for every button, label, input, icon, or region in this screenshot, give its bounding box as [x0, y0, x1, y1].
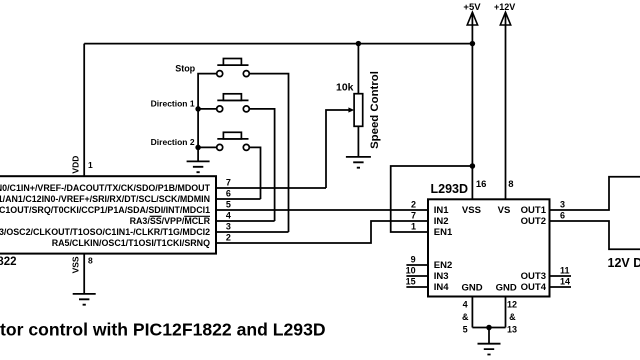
overline MCLR: [184, 215, 210, 217]
ground (L293D): [478, 344, 501, 355]
pushbutton Direction 2: [217, 132, 250, 150]
wire stop to PIC pin 3: [250, 74, 289, 232]
svg-text:8: 8: [88, 255, 93, 265]
svg-text:&: &: [509, 312, 516, 322]
svg-text:RA1/AN1/C12IN0-/VREF+/SRI/RX/D: RA1/AN1/C12IN0-/VREF+/SRI/RX/DT/SCL/SCK/…: [0, 194, 210, 204]
svg-text:4: 4: [463, 300, 468, 310]
node junction top rail / pot: [356, 41, 362, 47]
power symbol +12V arrow: [500, 12, 510, 25]
wire PIC pin 5 to L293D IN1: [217, 209, 428, 211]
svg-text:IN3: IN3: [434, 271, 449, 282]
svg-text:16: 16: [476, 179, 487, 190]
svg-text:RA4/AN3/OSC2/CLKOUT/T1OSO/C1IN: RA4/AN3/OSC2/CLKOUT/T1OSO/C1IN1-/CLKR/T1…: [0, 227, 210, 237]
wire L293D GND pins to ground: [472, 297, 505, 344]
ground (buttons): [187, 161, 210, 172]
svg-text:4: 4: [226, 211, 231, 221]
svg-text:Stop: Stop: [175, 64, 195, 74]
wire +5V vertical: [471, 12, 473, 199]
wire PIC pin 7 line: [217, 187, 326, 189]
svg-text:EN2: EN2: [434, 260, 452, 271]
node junction +5V / EN1: [470, 163, 476, 169]
wire EN1 to +5V: [391, 166, 473, 232]
svg-text:DC motor control with PIC12F18: DC motor control with PIC12F1822 and L29…: [0, 319, 326, 339]
wire PIC pin 6 line: [217, 198, 261, 200]
svg-text:RA5/CLKIN/OSC1/T1OSI/T1CKI/SRN: RA5/CLKIN/OSC1/T1OSI/T1CKI/SRNQ: [52, 238, 210, 248]
svg-text:7: 7: [226, 178, 231, 188]
node junction buttons direction1: [195, 106, 201, 112]
potentiometer R1 10k body: [354, 94, 363, 127]
svg-text:RA3/SS/VPP/MCLR: RA3/SS/VPP/MCLR: [130, 216, 211, 226]
ic U1 PIC12F1822 box: [0, 176, 216, 253]
potentiometer wiper arrowhead: [348, 107, 354, 112]
svg-text:OUT2: OUT2: [521, 216, 546, 227]
wire direction2 left stub: [198, 146, 216, 148]
svg-text:3: 3: [560, 200, 565, 210]
overline SS: [150, 215, 162, 217]
svg-text:9: 9: [411, 255, 416, 265]
svg-text:RA2/AN2/C1OUT/SRQ/T0CKI/CCP1/P: RA2/AN2/C1OUT/SRQ/T0CKI/CCP1/P1A/SDA/SDI…: [0, 205, 210, 215]
svg-text:6: 6: [560, 211, 565, 221]
svg-text:IN1: IN1: [434, 205, 450, 216]
svg-text:2: 2: [411, 200, 416, 210]
wire VDD drop to PIC pin 1: [83, 44, 85, 177]
svg-text:10: 10: [406, 266, 416, 276]
svg-text:3: 3: [226, 222, 231, 232]
svg-text:5: 5: [463, 324, 468, 334]
pushbutton Direction 1: [217, 94, 250, 112]
wire pot top: [357, 44, 359, 94]
svg-text:1: 1: [88, 160, 93, 170]
wire direction2 to PIC pin 6: [250, 147, 261, 199]
svg-text:Direction 2: Direction 2: [151, 137, 195, 147]
power symbol +5V arrow: [467, 12, 477, 25]
svg-text:11: 11: [560, 266, 570, 276]
pushbutton Stop: [217, 59, 250, 77]
svg-text:VSS: VSS: [462, 205, 481, 216]
wire OUT1 to motor: [550, 177, 640, 210]
wire button common vertical: [198, 74, 216, 162]
svg-text:15: 15: [406, 277, 416, 287]
wire direction1 to PIC pin 4: [250, 109, 275, 221]
svg-text:1: 1: [411, 222, 416, 232]
wire IN4 stub pin 15: [406, 286, 428, 288]
svg-text:14: 14: [560, 277, 570, 287]
svg-text:12V DC Motor: 12V DC Motor: [608, 256, 640, 270]
ground (potentiometer): [346, 157, 371, 168]
svg-text:5: 5: [226, 200, 231, 210]
svg-text:&: &: [462, 312, 469, 322]
svg-text:L293D: L293D: [431, 182, 469, 196]
wire OUT4 stub pin 14: [550, 286, 572, 288]
node junction L293D gnd: [486, 325, 492, 331]
svg-text:OUT4: OUT4: [521, 282, 547, 293]
svg-text:PIC12F1822: PIC12F1822: [0, 256, 17, 268]
wire EN2 stub pin 9: [406, 264, 428, 266]
wire PIC VSS pin 8 to ground: [83, 254, 85, 294]
svg-text:GND: GND: [462, 283, 483, 294]
svg-text:VS: VS: [498, 205, 511, 216]
wire pot wiper to PIC pin 7: [326, 110, 350, 188]
wire +12V vertical: [505, 12, 507, 199]
ic U2 L293D box: [428, 199, 550, 296]
svg-text:6: 6: [226, 189, 231, 199]
svg-text:Direction 1: Direction 1: [151, 99, 195, 109]
node junction buttons direction2: [195, 145, 201, 151]
svg-text:IN4: IN4: [434, 282, 450, 293]
svg-text:Speed Control: Speed Control: [369, 71, 381, 149]
wire PIC pin 2 to L293D IN2: [217, 221, 428, 243]
svg-text:EN1: EN1: [434, 227, 453, 238]
svg-text:13: 13: [507, 324, 517, 334]
wire PIC pin 4 line: [217, 220, 275, 222]
svg-text:IN2: IN2: [434, 216, 449, 227]
svg-text:OUT3: OUT3: [521, 271, 546, 282]
node junction top rail / +5V: [470, 41, 476, 47]
svg-text:12: 12: [507, 300, 517, 310]
svg-text:10k: 10k: [336, 82, 354, 93]
svg-text:VSS: VSS: [71, 256, 81, 273]
svg-text:+5V: +5V: [463, 2, 481, 13]
wire direction1 left stub: [198, 108, 216, 110]
svg-text:2: 2: [226, 233, 231, 243]
ground (PIC VSS): [73, 294, 96, 305]
wire pot bottom to ground: [357, 126, 359, 157]
wire OUT2 to motor: [550, 221, 640, 249]
wire IN3 stub pin 10: [406, 275, 428, 277]
svg-text:OUT1: OUT1: [521, 205, 547, 216]
wire PIC pin 3 line: [217, 231, 289, 233]
wire OUT3 stub pin 11: [550, 275, 572, 277]
svg-text:VDD: VDD: [71, 156, 81, 174]
svg-text:8: 8: [508, 179, 513, 190]
svg-text:GND: GND: [496, 283, 517, 294]
wire VDD top rail: [84, 43, 472, 45]
svg-text:RA0/AN0/C1IN+/VREF-/DACOUT/TX/: RA0/AN0/C1IN+/VREF-/DACOUT/TX/CK/SDO/P1B…: [0, 183, 211, 193]
svg-text:7: 7: [411, 211, 416, 221]
svg-text:+12V: +12V: [494, 2, 515, 12]
